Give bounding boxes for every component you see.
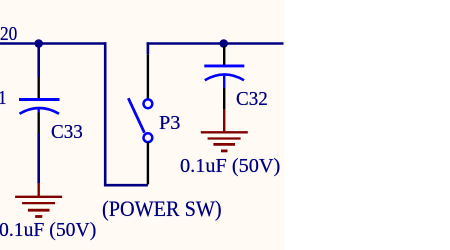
wire: bottom horizontal to switch — [104, 184, 148, 187]
switch P3 pin bottom (black) — [147, 142, 149, 184]
capacitor C32 pin bottom (black) — [223, 88, 225, 110]
designator C32 — [236, 89, 268, 109]
value label 0.1uF (50V) for C33 (clipped at left) — [0, 220, 96, 240]
designator P3 — [159, 113, 180, 133]
wire: top-left horizontal net segment — [0, 42, 106, 45]
switch P3 pin top (black) — [147, 54, 149, 99]
capacitor C32 pin top (black) — [223, 46, 225, 65]
node junction dot at C32 tap — [219, 39, 228, 48]
ground pin for C32 (maroon) — [223, 110, 225, 132]
pin number 20 — [0, 24, 17, 44]
wire: left vertical drop at x=105 — [104, 42, 107, 186]
partial designator 1 (clipped at left) — [0, 88, 6, 108]
wire: switch top feed (navy part) — [147, 42, 150, 54]
value label 0.1uF (50V) for C32 — [180, 156, 280, 176]
net comment (POWER SW) — [102, 198, 222, 220]
ground symbol under C33 — [15, 197, 62, 217]
wire: top-right horizontal net segment — [147, 42, 284, 45]
capacitor C32 plates — [204, 66, 244, 88]
capacitor C33 pin bottom (black) — [38, 113, 40, 134]
schematic sheet background — [0, 0, 284, 250]
switch P3 body: bottom contact circle — [144, 133, 153, 142]
wire: C33 bottom to ground (navy part) — [37, 134, 40, 184]
capacitor C33 pin top (black) — [38, 77, 40, 98]
node junction dot at C33 tap — [34, 39, 43, 48]
switch P3 body: top contact circle — [144, 99, 153, 108]
switch P3 blade — [128, 98, 144, 133]
ground symbol under C32 — [201, 132, 248, 151]
ground pin for C33 (maroon) — [38, 183, 40, 196]
capacitor C33 plates — [19, 100, 60, 114]
designator C33 — [51, 122, 83, 142]
wire: C33 top feed (navy part) — [37, 44, 40, 78]
